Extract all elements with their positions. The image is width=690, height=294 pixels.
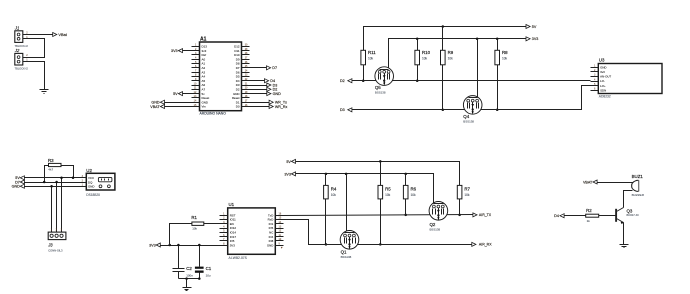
wire D4 to R2 [565, 215, 586, 217]
terminal D3 (A1 right) [267, 83, 278, 87]
wire J3 pin2 to D7 row [56, 183, 58, 233]
terminal D2 [340, 79, 352, 83]
U3 pin stubs (1-6) [591, 68, 599, 91]
transistor Q3 BC817-40 [616, 208, 639, 225]
wire R3 right to 5V row [62, 166, 74, 178]
svg-text:VBat: VBat [58, 32, 67, 37]
wire J1 pin 2 to VBat terminal [23, 34, 53, 36]
wire Q1 gate to 3V3 rail [346, 174, 348, 233]
svg-text:LO-: LO- [600, 79, 605, 83]
svg-text:VBAT: VBAT [583, 181, 593, 185]
A1 left pin stubs (pins 1-15) [192, 47, 200, 107]
svg-text:BUZ1: BUZ1 [632, 174, 644, 179]
junction R4 / AIR_RX [325, 243, 328, 246]
wire C2 top [178, 246, 180, 269]
svg-text:SDN: SDN [600, 88, 606, 92]
svg-text:Q2: Q2 [430, 222, 436, 227]
wire R1 branch (3V3 to EN) [170, 224, 192, 246]
terminal D7 (A1 right) [267, 66, 278, 70]
resistor R1 [191, 215, 203, 230]
wire J3 pin3 to 5V row [61, 178, 63, 233]
svg-text:10k: 10k [464, 193, 470, 197]
svg-text:5V: 5V [286, 160, 291, 164]
terminal 3V3 (U1 row) [149, 243, 160, 247]
svg-text:TBLOCK-I2: TBLOCK-I2 [15, 67, 29, 71]
resistor R11 [361, 50, 376, 65]
terminal 5V (A1 left) [173, 92, 182, 96]
U1 left pin stubs [220, 216, 228, 246]
svg-text:J3: J3 [47, 242, 53, 247]
junction on 3V3 rail at Q4 gate [476, 38, 479, 41]
wire ground stem (capacitors) [186, 279, 188, 288]
svg-text:R7: R7 [464, 186, 470, 191]
svg-text:10u: 10u [206, 274, 211, 278]
wire 5V rail (bottom) [296, 162, 460, 186]
wire A1 to terminal WR_Tx [250, 102, 270, 104]
terminal WR_Rx (A1 right) [269, 105, 287, 109]
terminal VBAT (buzzer) [583, 180, 597, 185]
wire D7 row to U2 DQ [25, 182, 79, 184]
resistor R10 [415, 50, 431, 65]
junction R5 / AIR_RX [379, 243, 382, 246]
svg-text:Q1: Q1 [341, 250, 347, 255]
wire A1 to terminal D3 [250, 85, 267, 87]
svg-text:10k: 10k [331, 193, 337, 197]
junction R6 / AIR_TX [404, 214, 407, 217]
svg-text:R8: R8 [502, 50, 508, 55]
wire 5V row to U2 VCC [25, 177, 79, 179]
wire J2 pin 1 to ground [23, 62, 45, 90]
junction on 5V rail at R9 [442, 25, 445, 28]
U2 pin stubs [79, 178, 87, 187]
svg-text:BUZZER: BUZZER [632, 193, 645, 197]
junction 3V3 row / R1 branch [168, 244, 171, 247]
mosfet Q5 [375, 67, 394, 95]
capacitor C1 (polarized) [195, 266, 212, 278]
wire R8 top to 3V3 rail [497, 39, 499, 51]
A1 right pin stubs (pins 16-30) [242, 47, 250, 107]
svg-text:U3: U3 [599, 58, 605, 63]
svg-text:C1: C1 [206, 266, 212, 271]
junction R3 left / D7 row [43, 181, 46, 184]
wire A1 to terminal D4 [250, 80, 265, 82]
junction R3 right / 5V row [72, 177, 75, 180]
arduino nano A1 [200, 36, 242, 115]
svg-text:J2: J2 [14, 48, 20, 53]
wire R3 left to D7 row [45, 166, 49, 183]
svg-text:R3: R3 [48, 158, 54, 163]
junction 3V3 rail / R6 [404, 173, 407, 176]
wire U1 TxD to AIR_TX terminal [284, 215, 473, 216]
J2 pin numbers [26, 54, 28, 62]
svg-text:R2: R2 [586, 208, 592, 213]
junction J3 pin2 / D7 row [55, 181, 58, 184]
junction R7 / AIR_TX [458, 214, 461, 217]
svg-text:GND: GND [600, 65, 606, 69]
wire 5V to A1 pin 5v [183, 93, 192, 95]
terminal 5V (bottom rails) [286, 159, 295, 163]
svg-text:10k: 10k [411, 193, 417, 197]
wire R9 top to 5V rail [442, 27, 444, 51]
wire C1 top [199, 246, 201, 267]
junction R10 / LO- wire [416, 79, 419, 82]
svg-text:D0: D0 [236, 105, 240, 109]
svg-text:1k: 1k [587, 219, 591, 223]
wire R9 bottom to D3 net [442, 65, 444, 110]
terminal VBAT (A1 left) [150, 105, 164, 109]
svg-text:GND: GND [273, 92, 282, 96]
junction 3V3 row / C2 branch [177, 244, 180, 247]
J3 pin numbers [51, 229, 63, 232]
J1 pin numbers [26, 32, 28, 39]
svg-text:R4: R4 [331, 186, 337, 191]
svg-text:U1: U1 [229, 202, 235, 207]
svg-text:R1: R1 [191, 215, 197, 220]
terminal WR_Tx (A1 right) [269, 100, 287, 104]
wire J1 pin 1 to J2 pin 2 [23, 39, 45, 58]
connector J2 [14, 48, 28, 70]
wire A1 to terminal D7 [250, 67, 267, 69]
wire 3V3 to A1 pin 3v3 [183, 50, 192, 52]
svg-text:3V3: 3V3 [171, 49, 178, 53]
wire R5 bottom to AIR_RX row [380, 199, 382, 245]
wire GND row to U2 GND [25, 186, 79, 188]
junction 5V rail / R5 [379, 160, 382, 163]
junction J3 pin1 / GND row [50, 185, 53, 188]
terminal GND (A1 left) [151, 100, 164, 104]
resistor R7 [457, 185, 470, 199]
svg-text:A1: A1 [200, 36, 207, 42]
wire 5V rail (top) [364, 27, 527, 51]
connector J3 [47, 232, 66, 253]
svg-text:WR_Rx: WR_Rx [275, 105, 288, 109]
wire R4 bottom to AIR_RX row [325, 199, 327, 245]
wire R6 top to 3V3 rail [405, 174, 407, 186]
terminal AIR_TX [473, 213, 492, 217]
module U1 AI-WB2-07S [228, 202, 276, 260]
connector J1 [14, 26, 28, 48]
wire 3V3 row to U1 3V3 pin [161, 245, 220, 247]
ground (Q3 emitter) [620, 245, 629, 248]
wire Q3 emitter to ground [623, 223, 625, 245]
wire 3V3 rail (top) [389, 39, 527, 69]
wire R5 top to 5V rail [380, 162, 382, 186]
terminal GND (A1 right) [267, 92, 281, 96]
svg-text:ARDUINO NANO: ARDUINO NANO [200, 112, 227, 116]
A1 left pin numbers [194, 44, 197, 107]
svg-text:R9: R9 [448, 50, 454, 55]
junction 3V3 rail / Q1 gate [345, 173, 348, 176]
svg-text:BC817-40: BC817-40 [627, 213, 640, 217]
svg-text:BSS138: BSS138 [341, 255, 352, 259]
svg-text:D2: D2 [340, 79, 345, 83]
wire Q3 collector to buzzer [624, 191, 633, 208]
svg-text:Q5: Q5 [375, 85, 381, 90]
svg-text:DS18B20: DS18B20 [86, 193, 100, 197]
resistor R2 [586, 208, 599, 223]
terminal D4 (buzzer drive) [554, 214, 564, 218]
svg-text:D4: D4 [554, 214, 559, 218]
wire A1 to terminal GND [250, 93, 267, 95]
svg-text:3V3: 3V3 [230, 243, 236, 247]
svg-text:Q3: Q3 [627, 209, 633, 214]
wire D3 net (to U3 LO+) [352, 86, 591, 110]
svg-text:BSS138: BSS138 [430, 227, 441, 231]
U1 left pin numbers [223, 212, 225, 245]
svg-text:R5: R5 [385, 186, 391, 191]
capacitor C2 [173, 266, 194, 278]
svg-text:D7: D7 [272, 66, 277, 70]
terminal D7 (DS18B20 row) [15, 180, 24, 184]
wire R10 bottom to LO- net [417, 65, 419, 81]
wire R2 to Q3 base [599, 215, 616, 217]
terminal 3V3 (A1 left) [171, 49, 182, 53]
wire A1 to terminal D2 [250, 89, 267, 91]
svg-text:AI-WB2-07S: AI-WB2-07S [229, 256, 248, 260]
svg-text:R10: R10 [422, 50, 431, 55]
svg-text:10k: 10k [385, 193, 391, 197]
wire VBAT to A1 pin Vin [165, 106, 192, 108]
junction R9 / D3 wire [442, 109, 445, 112]
svg-text:5V: 5V [532, 25, 537, 29]
svg-text:VBAT: VBAT [150, 105, 160, 109]
svg-text:AD8232: AD8232 [599, 95, 611, 99]
svg-text:J1: J1 [14, 26, 19, 31]
svg-text:C2: C2 [186, 266, 192, 271]
svg-text:AIR_RX: AIR_RX [479, 243, 492, 247]
svg-text:LO+: LO+ [600, 84, 606, 88]
svg-text:3V3: 3V3 [532, 37, 539, 41]
junction ground rail / C1 [198, 277, 201, 280]
U3 pin numbers [594, 65, 596, 91]
U1 GND power-pin marker [281, 247, 283, 249]
terminal AIR_RX [472, 242, 492, 246]
resistor R9 [441, 50, 454, 65]
A1 right pin numbers [245, 44, 248, 107]
svg-text:10k: 10k [192, 226, 197, 230]
svg-text:AIR_TX: AIR_TX [479, 213, 492, 217]
junction R8 / LO+ wire [496, 109, 499, 112]
wire D2 net (to U3 LO-) [352, 80, 591, 82]
terminal 3V3 (bottom rails) [284, 172, 295, 176]
svg-text:R11: R11 [368, 50, 376, 55]
U1 right pin numbers [279, 212, 282, 245]
resistor R4 [324, 185, 337, 199]
terminal D3 [340, 108, 352, 112]
junction on 3V3 rail at R8 [496, 38, 499, 41]
terminal 3V3 (top right) [526, 37, 538, 41]
terminal D4 (A1 right) [265, 79, 276, 83]
wire U1 RxD to AIR_RX row [284, 220, 472, 245]
wire R1 to U1 EN pin [204, 223, 220, 225]
mosfet Q4 [463, 96, 482, 124]
svg-text:GND: GND [88, 185, 94, 189]
buzzer BUZ1 [632, 174, 645, 197]
svg-text:5V: 5V [173, 92, 178, 96]
svg-text:CONN-SIL3: CONN-SIL3 [48, 249, 63, 253]
wire A1 to terminal WR_Rx [250, 106, 270, 108]
U2 pin numbers [82, 175, 84, 186]
svg-text:R6: R6 [411, 186, 417, 191]
mosfet Q1 [340, 231, 359, 260]
svg-text:3V3: 3V3 [284, 172, 291, 176]
resistor R8 [495, 50, 508, 65]
resistor R5 [378, 185, 391, 199]
junction J3 pin3 / 5V row [60, 177, 63, 180]
svg-text:3v3: 3v3 [600, 70, 605, 74]
svg-text:GND: GND [12, 185, 21, 189]
wire R7 bottom to AIR_TX row [459, 199, 461, 215]
wire R8 bottom to LO+ net [497, 65, 499, 110]
terminal GND (DS18B20 row) [12, 184, 25, 188]
wire R10 top to 3V3 rail [417, 39, 419, 51]
wire 3V3 rail (bottom) [296, 174, 434, 204]
mosfet Q2 [429, 202, 448, 232]
junction ground rail / ground stem [185, 277, 188, 280]
wire capacitor ground rail [179, 278, 200, 280]
svg-text:10k: 10k [502, 57, 508, 61]
wire R11 bottom to D2 net [363, 65, 365, 81]
terminal 5V (DS18B20 row) [15, 176, 24, 180]
wire J3 pin1 to GND row [51, 187, 53, 233]
U2 display graphic [98, 177, 112, 187]
wire GND to A1 pin GND [165, 102, 192, 104]
wire C1 bottom [199, 273, 201, 279]
terminal D2 (A1 right) [267, 87, 278, 91]
module U3 AD8232 [598, 58, 662, 99]
svg-text:D3: D3 [340, 108, 345, 112]
resistor R3 [48, 158, 61, 171]
svg-text:GND: GND [267, 243, 273, 247]
svg-text:4k7: 4k7 [48, 167, 53, 171]
wire R6 bottom to AIR_TX row [405, 199, 407, 215]
svg-text:Vin: Vin [202, 105, 207, 109]
ground (below J2) [40, 90, 49, 94]
resistor R6 [403, 185, 416, 199]
terminal 5V (top right) [526, 25, 537, 29]
svg-text:BSS138: BSS138 [463, 119, 474, 123]
wire VBAT to buzzer [598, 182, 633, 184]
svg-text:BSS138: BSS138 [375, 91, 386, 95]
svg-text:10k: 10k [422, 57, 428, 61]
ground (capacitors) [183, 288, 192, 291]
junction R11 / D2 wire [362, 79, 365, 82]
svg-text:100n: 100n [186, 274, 193, 278]
svg-text:10k: 10k [368, 57, 374, 61]
svg-text:U2: U2 [86, 168, 92, 173]
wire Q4 gate to 3V3 rail [477, 39, 479, 98]
wire C2 bottom [178, 272, 180, 279]
svg-text:3V3: 3V3 [149, 243, 156, 247]
junction 3V3 row / C1 branch [198, 244, 201, 247]
wire R4 top to 3V3 rail [325, 174, 327, 186]
svg-text:Q4: Q4 [463, 114, 469, 119]
junction 3V3 rail / R4 [325, 173, 328, 176]
junction on 3V3 rail at R10 [416, 38, 419, 41]
U1 right pin stubs [276, 216, 284, 246]
sensor U2 DS18B20 [86, 168, 115, 197]
svg-text:AN-OUT: AN-OUT [600, 75, 611, 79]
terminal VBat [53, 32, 68, 37]
svg-text:10k: 10k [448, 57, 454, 61]
